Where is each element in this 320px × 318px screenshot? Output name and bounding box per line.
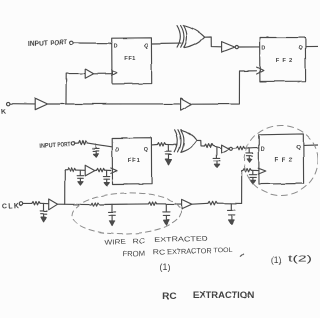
buffer U4 [181,98,192,110]
inverter U1 bubble [235,46,238,49]
svg-text:Q: Q [296,145,300,151]
svg-text:INPUT: INPUT [28,40,48,48]
wire: R11 to FF2 clock riser [217,202,241,204]
ground (C9) [111,215,113,221]
wire: CLK trunk segment to resistor R9 [58,203,91,205]
wire: U8 to resistor R11 [192,202,208,205]
svg-text:RC: RC [133,237,146,245]
wire: XOR output to inverter [205,37,222,47]
terminal: input port node (top) [70,41,74,45]
flip-flop FF1 box [112,38,152,84]
FF1 clock pin marker [112,70,117,75]
capacitor C7 [249,171,256,178]
XOR gate G2 input arcs [175,130,181,152]
flip-flop FF2 box (RC) [259,134,304,184]
FF1(RC) clock pin marker [111,168,117,173]
FF2(RC) clock pin marker [258,168,266,174]
inverter U6 bubble [229,147,232,150]
svg-text:RC: RC [162,290,177,301]
svg-text:Q: Q [144,44,148,50]
ground (C1) [95,151,97,154]
svg-text:FF2: FF2 [276,58,293,64]
wire: FF2(RC) Q output [304,144,318,146]
flip-flop FF1 box (RC) [112,138,151,184]
wire: riser to FF2 clock (RC) [242,170,243,203]
wire: inverter to FF2 D [239,46,260,48]
resistor R10 [149,202,157,205]
wire: terminal to resistor R1 [75,142,78,144]
wire: FF2 Q output [306,45,318,47]
svg-text:(1): (1) [271,255,282,265]
resistor R7 [243,169,251,172]
resistor R1 [78,141,87,145]
wire: R8 to buffer U7 [40,202,48,204]
XOR gate G1 input arcs [177,26,184,48]
FF2 clock pin marker [257,67,264,74]
inverter U1 [222,42,235,53]
wire: R1 to FF1 D [87,143,112,147]
wire: R5 to inverter U6 [213,146,221,148]
terminal: CLK node (top) [7,102,10,105]
ground (C8) [43,214,45,217]
capacitor C3 [103,170,109,179]
svg-text:INPUT: INPUT [39,142,56,150]
ground (C6) [248,156,250,159]
terminal: CLK node (RC) [19,202,22,205]
wire: buffer U3 to FF1 clock [94,73,112,75]
svg-text:D: D [116,147,120,153]
pen mark after TOOL [240,254,243,257]
wire: U5 to resistor R3 [95,169,97,171]
svg-text:CLK: CLK [2,203,21,211]
wire: CLK terminal to resistor R8 [23,202,32,204]
ground (C3) [106,179,108,182]
wire: buffer U4 to FF2 clock [192,71,257,104]
wire: R3 to FF1 clock [105,169,111,171]
wire: U6 to resistor R6 [232,147,236,149]
dashed annotation blob around FF2 (RC) [242,123,320,198]
wire: riser to FF1 clock buffer [66,74,85,104]
svg-text:RC: RC [153,248,166,256]
capacitor C10 [163,204,170,215]
svg-text:FROM: FROM [122,250,145,259]
flip-flop FF2 box [260,37,306,81]
capacitor C8 [40,204,47,214]
ground (C2) [79,178,81,181]
resistor R11 [208,201,217,205]
svg-text:PORT: PORT [50,39,67,47]
wire: G2 output to resistor R5 [197,140,205,146]
resistor R3 [97,168,105,171]
svg-text:FF1: FF1 [128,158,141,164]
buffer U5 [85,165,95,176]
wire: R10 to buffer U8 [157,203,182,205]
svg-text:Q: Q [298,45,302,51]
svg-text:D: D [114,44,118,50]
wire: R4 to XOR G2 [166,143,178,145]
wire: riser CLK to FF1 clock path [65,170,68,204]
buffer U2 [35,98,47,110]
svg-text:Q: Q [144,147,148,153]
XOR gate G2 body [181,130,197,152]
wire: R9 to resistor R10 [99,203,148,206]
wire: FF1 Q to XOR input [152,43,181,45]
buffer U8 [182,199,192,209]
resistor R4 [157,143,165,146]
resistor R6 [236,146,244,149]
svg-text:EXTRACTED: EXTRACTED [154,235,208,244]
inverter U6 [222,145,230,153]
resistor R2 [68,168,76,171]
capacitor C1 [93,144,100,151]
svg-text:PORT: PORT [57,141,70,149]
capacitor C11 [228,203,236,215]
svg-text:TOOL: TOOL [213,247,233,255]
resistor R9 [91,203,99,206]
capacitor C9 [109,204,116,215]
capacitor C2 [77,170,83,178]
buffer U7 [49,199,58,210]
wire: FF1(RC) Q to resistor R4 [152,144,158,146]
svg-text:EXTRACTOR: EXTRACTOR [167,247,212,256]
wire: R6 to FF2 D (RC) [245,146,259,149]
ground (C10) [165,215,167,220]
ground (C7) [252,177,254,180]
svg-text:D: D [261,146,265,152]
ground (C4) [168,154,170,159]
wire: input port to FF1 D [73,42,111,44]
wire: R7 to FF2 clock [251,169,258,171]
terminal: input port node (RC) [71,142,74,145]
svg-text:FF1: FF1 [124,56,136,62]
svg-text:t(2): t(2) [288,254,312,264]
ground (C11) [230,215,232,220]
capacitor C4 [165,145,172,155]
resistor R8 [32,202,40,205]
svg-text:CLK: CLK [0,108,8,116]
wire: R2 to buffer U5 [76,169,85,171]
XOR gate G1 body [184,26,205,48]
svg-text:WIRE: WIRE [104,238,126,247]
svg-text:D: D [261,46,265,52]
buffer U3 [85,69,93,78]
svg-text:FF2: FF2 [275,157,293,163]
ground (C5) [216,161,218,165]
wire: CLK trunk (top circuit) [48,103,181,105]
svg-text:(1): (1) [160,262,171,272]
wire: CLK terminal to buffer [10,103,35,105]
capacitor C6 [246,148,253,156]
svg-text:EXTRACTION: EXTRACTION [193,290,255,300]
capacitor C5 [214,147,221,161]
resistor R5 [205,144,213,147]
dashed annotation ellipse: wire RC region [71,191,181,236]
